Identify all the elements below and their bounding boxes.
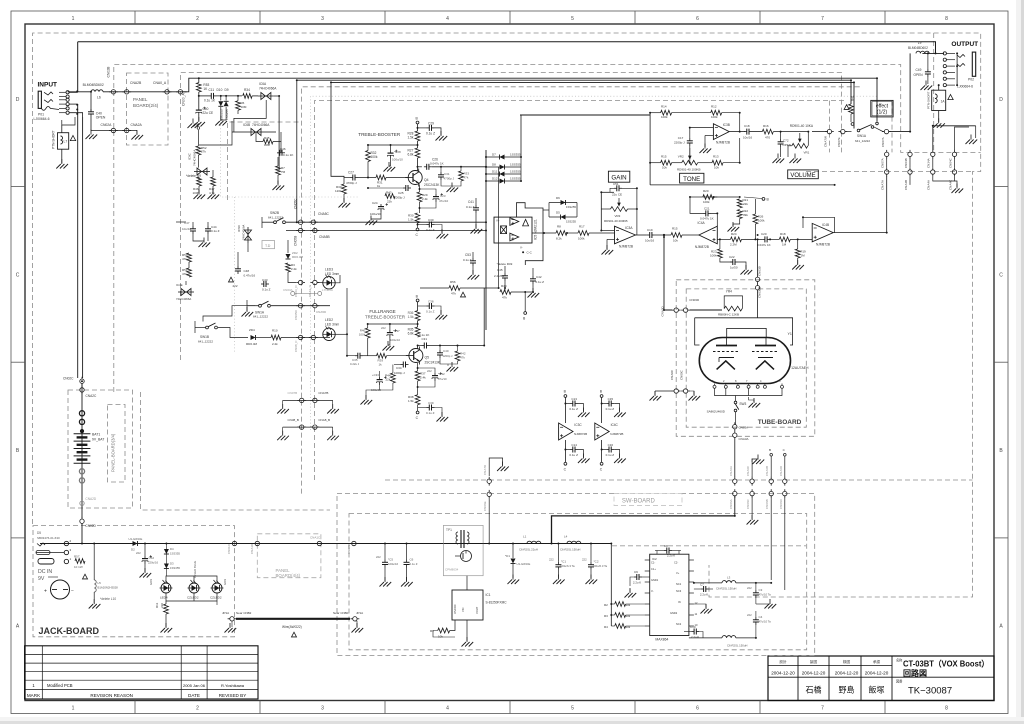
resistor R24 2.2M [731,237,742,242]
svg-text:DC IN: DC IN [38,569,52,575]
capacitor C72 OPEN [778,139,784,147]
capacitor C18 10u/16 [744,129,752,135]
svg-text:NJM872B: NJM872B [574,432,587,436]
wire IC3A plus input [607,238,615,240]
wire to gnd [606,239,608,249]
wire C5 down [384,568,386,582]
svg-text:JP1A: JP1A [222,611,229,615]
effect area dashed left edge [828,101,830,153]
svg-text:CN06C: CN06C [746,498,750,509]
wire LED2 bottom [193,593,195,601]
svg-text:CN06D: CN06D [779,498,783,509]
svg-text:C11: C11 [209,88,215,92]
svg-text:LJ00664-6: LJ00664-6 [957,85,973,89]
wire C1 down [557,570,559,579]
zener ZD4 [251,335,256,340]
svg-text:R43: R43 [386,191,392,195]
battery area dashed box [68,390,133,508]
svg-text:NC3: NC3 [676,589,682,593]
ground under IC3B [700,144,712,154]
wire SW3 to CN03A [735,412,737,425]
wire VR3 right [628,208,637,210]
tube grid cap box [727,328,767,337]
wire to gnd [975,126,977,138]
svg-text:100K: 100K [193,191,200,195]
connector CN02A [109,128,118,132]
svg-text:IC4E: IC4E [176,283,183,287]
ground under C50 [193,117,205,127]
board outline treble dashed box 2 [314,101,844,480]
ground under C52 [140,568,152,578]
tube plate lead left [726,338,728,346]
svg-text:C6-R2SL 150uH: C6-R2SL 150uH [560,548,580,552]
svg-text:L6: L6 [97,96,101,100]
input jack tip contact [44,92,53,95]
svg-text:CNA4A: CNA4A [927,180,931,190]
wire C13 to gnd [578,404,583,412]
svg-text:R15: R15 [661,155,667,159]
svg-text:VR1: VR1 [804,151,810,155]
svg-text:IC6B: IC6B [243,123,250,127]
connector CN00_A [176,90,185,94]
svg-text:IC3B: IC3B [723,123,730,127]
dashed overlay along sw rail [612,545,806,547]
svg-text:C25: C25 [398,191,404,195]
svg-text:2SC2413K: 2SC2413K [425,361,441,365]
wire R3 to IC [626,614,645,616]
output jack contacts arrows [957,55,965,58]
wire feedback to output [636,209,638,235]
svg-text:IC2: IC2 [652,557,657,561]
svg-text:CNA4B: CNA4B [904,180,908,190]
ground C14 [578,454,590,464]
wire R10 to CN row [281,337,330,339]
capacitor C22 1u/50 [730,259,738,265]
resistor R10 2.2k [271,335,281,340]
ground CNA7B [327,404,339,414]
svg-text:39k: 39k [743,213,748,217]
svg-text:0.047u 1K: 0.047u 1K [700,217,714,221]
wire to gnd [355,621,357,627]
svg-text:7: 7 [821,16,824,22]
wire SW1A throws [246,300,248,311]
svg-text:L1: L1 [523,535,527,539]
wire SW2B pole [262,221,274,223]
wire R45 left [256,132,263,142]
svg-text:74HC4066A: 74HC4066A [259,87,277,91]
svg-text:100k: 100k [371,155,378,159]
svg-text:C23: C23 [440,194,446,198]
warning mark dc [82,574,87,579]
TP1 winding right [467,532,469,544]
wire CN07B row [283,399,333,401]
svg-text:MAX864: MAX864 [655,638,668,642]
wire C10 right [699,632,703,638]
svg-text:C6-R2SL 150uH: C6-R2SL 150uH [727,644,747,648]
svg-text:CNA7B: CNA7B [318,391,328,395]
small circle node [197,127,200,130]
resistor R4 10k [615,624,626,629]
wire R19 to gnd [797,258,799,264]
wire vertical bus left of IC5 [485,150,487,330]
capacitor C3 47u/10 Ta [753,590,759,598]
wire R53 to C11 [199,95,209,97]
svg-text:222: 222 [233,284,238,288]
capacitor C21 0.047u 1K [703,210,711,216]
svg-text:5: 5 [571,16,574,22]
wire C10 left [684,631,691,633]
svg-text:LED3: LED3 [325,268,333,272]
capacitor C40f 1200p J [437,350,443,358]
svg-text:VR3: VR3 [615,214,621,218]
wire LED3 down [216,601,218,605]
svg-text:CNA3A: CNA3A [739,437,749,441]
wire R35 to collector [417,345,419,349]
wire gnd pair left [655,390,672,392]
wire C21 right [711,213,717,226]
B node CNA6B [770,454,773,457]
wire IC3B out [729,131,745,133]
wire C51 right [622,188,637,209]
svg-text:C39: C39 [428,401,434,405]
wire jack common [956,53,958,85]
svg-text:0.1u Z: 0.1u Z [463,258,472,262]
svg-text:222: 222 [427,369,432,373]
svg-text:NC2: NC2 [676,622,682,626]
svg-text:C30: C30 [428,218,434,222]
svg-text:D10: D10 [217,88,223,92]
svg-text:L7N03A: L7N03A [322,288,333,292]
wire tone bottom rail [650,184,835,186]
svg-text:0.22u J: 0.22u J [350,362,360,366]
wire to gnd right [690,391,694,395]
wire L4 down [938,111,940,123]
connector CNA5C [309,220,318,224]
resistor R51 47k [187,268,192,277]
svg-text:6: 6 [696,16,699,22]
wire B to R36 [417,302,419,311]
resistor R57 10 1W [75,559,85,564]
effect area dashed right edge [891,101,893,153]
svg-text:R4: R4 [604,625,608,629]
connector CN07A [882,129,891,133]
wire R16 to VR1 [773,131,808,133]
svg-text:CN02B: CN02B [107,66,111,78]
wire pair 1 [886,159,888,168]
wire LED bottoms [166,593,217,601]
wire SW1B throws [194,321,196,333]
svg-text:3: 3 [321,705,324,711]
svg-text:CNA7D: CNA7D [483,464,487,475]
ground under IC3A [602,245,614,255]
panel board 3/4 dashed box [108,405,126,483]
wire C35 in [349,355,355,357]
wire to R32 [368,144,418,146]
svg-text:1k: 1k [377,184,381,188]
resistor R6 10M [236,101,241,110]
capacitor C1 100u/6.3 Ta [555,562,561,570]
wire CNA3A down [734,440,736,478]
B supply node IC4 bias [762,198,765,201]
board outline fourth dashed line [228,122,302,200]
svg-text:C52: C52 [149,556,155,560]
analog switch IC6B 74HC4066A [248,129,264,136]
analog switch IC6A 74HC4066A [258,93,274,100]
wire gain loop top left [601,191,614,193]
svg-text:0.1u Z: 0.1u Z [606,453,615,457]
svg-text:R.Yoshikawa: R.Yoshikawa [221,683,245,688]
capacitor C20 0.047u 1K [762,236,770,242]
wire R14-R12 [672,112,711,114]
svg-text:0.1u Z: 0.1u Z [426,310,435,314]
capacitor C30 0.1u Z [427,222,435,228]
capacitor C40 OPEN wire [90,92,92,112]
wire to R53 [185,78,199,92]
capacitor C48 0.47u/16 [235,266,241,274]
wire [611,625,614,627]
svg-text:R10: R10 [272,329,278,333]
ground under C33 [361,395,373,405]
svg-text:CNA2C: CNA2C [86,394,98,398]
svg-text:47k: 47k [502,296,507,300]
svg-text:CN06A: CN06A [729,499,733,509]
wire C14 to gnd [578,450,583,458]
title block frame [768,656,994,701]
ground under C49 [921,81,933,91]
wire CN06E down to rail [488,499,490,544]
svg-text:C13: C13 [571,397,577,401]
resistor R41 [849,104,854,114]
svg-text:CPM8034: CPM8034 [445,568,459,572]
wire IC6D down [247,243,249,252]
svg-text:R8: R8 [557,225,561,229]
wire C52 down [144,564,146,572]
wire SW2B throws [261,217,263,228]
svg-text:D8: D8 [492,163,496,167]
connector CN34A [931,150,935,159]
wire to SW3 [735,396,737,402]
wire feedback left [802,217,804,228]
svg-text:CNA5D: CNA5D [316,310,327,314]
svg-text:IN: IN [678,600,681,604]
capacitor C39 0.1u Z [427,405,435,411]
wire to R15 tone [650,162,661,164]
svg-text:D5: D5 [37,531,41,535]
wire send B down [296,80,298,222]
svg-text:10u/16: 10u/16 [182,227,192,231]
ground left of CN02A [86,130,98,140]
wire Q5 emitter [417,363,419,371]
wire D3 down [165,569,167,577]
wire [611,614,614,616]
svg-text:V+: V+ [676,571,680,575]
wire bottom power rail [66,543,611,545]
heater resistor YR4 loop [724,296,742,309]
svg-text:SA862U460D: SA862U460D [707,410,726,414]
svg-text:47k: 47k [460,356,465,360]
svg-text:10k: 10k [673,239,678,243]
wire feedback right [834,217,836,232]
resistor R53 1K [196,83,201,92]
capacitor C49 OPEN [925,69,931,77]
wire R56 left [420,287,449,289]
wire pair4 top [955,127,970,150]
ground under IC1 [462,637,474,647]
connector CN06B [769,489,773,498]
svg-text:PANEL-BOARD(3/4): PANEL-BOARD(3/4) [111,433,116,472]
wire C47 top [192,222,194,226]
wire pair 2 [909,159,911,168]
svg-text:R12: R12 [711,105,717,109]
capacitor C19 10u/16 [647,232,655,238]
svg-text:R3: R3 [604,614,608,618]
wire C3 top [755,583,757,590]
svg-text:1SS355: 1SS355 [225,109,229,120]
svg-text:1: 1 [72,16,75,22]
svg-text:2004-12-20: 2004-12-20 [865,671,889,676]
C supply node IC4C [600,462,603,465]
wire to C16 [602,449,607,451]
svg-text:OPEN: OPEN [783,143,792,147]
wire C40 to CN row [90,117,92,131]
TP1 transformer core [460,530,462,548]
IC5 outer loop [517,203,544,265]
switch SW2B [274,218,286,224]
wire C46 to R7 [277,157,279,166]
resistor R29 2.4k [417,192,422,202]
wire R31 to Q4 base [386,177,408,179]
svg-text:CNA0_A: CNA0_A [153,81,167,85]
IC5 pin circle [522,251,524,253]
wire IC4B out [833,232,887,234]
svg-text:VR2: VR2 [678,155,684,159]
wire R17 to IC3A [589,232,615,234]
svg-text:CN03A: CN03A [739,426,749,430]
svg-text:CN04B: CN04B [904,158,908,168]
svg-text:MARK: MARK [27,693,41,698]
wire C4 down [755,625,757,638]
connector CN02D [80,517,84,526]
op-amp IC4C [595,423,609,440]
svg-text:1SS255: 1SS255 [566,220,576,224]
wire C50 to gnd [198,116,200,122]
ground pair right [689,391,701,401]
svg-text:REVISION REASON: REVISION REASON [90,693,133,698]
L4 coil [935,94,937,103]
resistor R50 47k [187,253,192,262]
ferrite bead L9 BLM04BD602 [916,51,929,53]
svg-text:C41: C41 [468,200,474,204]
wire send line A [199,78,877,121]
svg-text:*C28: *C28 [394,150,401,154]
svg-text:222: 222 [376,555,381,559]
wire R40 top [367,324,369,328]
svg-text:BOARD(4/4): BOARD(4/4) [276,573,301,578]
ground CNA4C [952,184,964,194]
resistor R21 22k [737,199,742,208]
wire L7 to jack [62,117,75,125]
svg-text:1200p J: 1200p J [443,354,454,358]
wire IC4E top [185,281,187,285]
wire input line [68,91,91,93]
capacitor C27 4700p J [350,175,358,181]
wire to C terminal [417,223,419,228]
wire IC3B minus [690,127,714,129]
wire to D9 [225,96,227,101]
svg-text:VOUT: VOUT [475,606,479,614]
wire L3 out [736,582,771,584]
battery holder contact 3 [79,469,84,474]
ground under C41 [471,224,483,234]
warning mark near R41 [844,105,849,110]
wire C24 to gnd [371,212,381,219]
svg-text:Wire(AWG22): Wire(AWG22) [282,625,302,629]
svg-text:LED 3mm: LED 3mm [325,323,340,327]
warning mark output [948,95,953,100]
svg-text:CZLED BLUE: CZLED BLUE [193,561,197,578]
connector CNA6A [733,477,737,486]
wire C38 to gnd [435,306,442,314]
wire C44 bottom [207,234,209,241]
wire L4b out [736,637,756,639]
comparator inside IC5 (2) [510,233,519,241]
svg-text:P01: P01 [38,113,44,117]
connector CNA2C [80,386,84,395]
wire L7 top [61,125,63,133]
svg-text:GAIN: GAIN [611,174,626,181]
wire to gnd [231,621,233,627]
op-amp IC4A (reversed) [699,226,717,244]
MAX864 box [650,554,689,635]
svg-text:4: 4 [446,16,449,22]
svg-text:CN06B: CN06B [765,499,769,509]
IC1 box [452,590,483,620]
svg-text:CN01D: CN01D [227,543,231,554]
svg-text:0.1u 1K: 0.1u 1K [204,99,216,103]
capacitor C25 1000p J [403,185,411,191]
wire battery to dc-in rail [40,524,82,544]
resistor R23 100k [718,249,723,258]
connector CNA8_C [309,335,318,339]
svg-text:0.047u 1K: 0.047u 1K [430,162,444,166]
board outline third dashed box [180,72,841,360]
svg-text:CN030B: CN030B [758,287,762,298]
dashed segment y171 [806,171,973,173]
capacitor C44 0.1u Z [205,226,211,234]
capacitor C37 100u/10 [387,329,397,338]
wire sw-board top rail [552,516,735,544]
connector CNA1D [253,541,262,545]
connector JP1A left [228,617,237,621]
ground CNA7D [497,462,509,472]
capacitor C33 100u/10 [377,376,387,385]
wire to C39 [418,407,427,409]
svg-text:L5: L5 [98,581,102,585]
connector JP1A right [351,617,360,621]
svg-text:V-: V- [520,246,523,250]
resistor R15 10k [671,233,682,238]
svg-text:222: 222 [582,558,587,562]
wire LED tops [166,576,217,583]
connector CNA6C [750,477,754,486]
svg-text:Near CNB0: Near CNB0 [333,611,349,615]
svg-text:CZLED2: CZLED2 [187,596,199,600]
capacitor C8 2.2u K [664,548,672,554]
battery BAT1 9V_BAT [74,434,91,464]
svg-text:22k: 22k [387,200,392,204]
dc jack pin 3 [64,550,68,554]
wire R41 to switch [850,114,852,122]
